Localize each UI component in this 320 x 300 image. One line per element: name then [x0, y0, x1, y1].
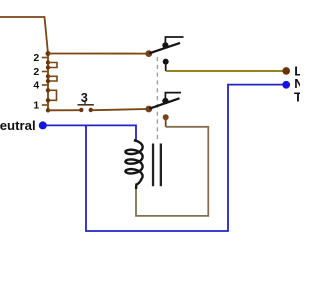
svg-text:2: 2 [33, 66, 39, 78]
pushbutton S3 actuator stem [84, 102, 86, 105]
relay contact S1 lever [149, 43, 180, 53]
wire neutral to coil top [46, 125, 136, 140]
wire to relay contact S1 common [48, 53, 147, 55]
pin 4 terminal tick [42, 84, 47, 86]
relay contact S2 NO contact [163, 114, 169, 120]
relay contact S2 common node [145, 106, 152, 113]
relay coil K1 [125, 140, 142, 189]
relay contact S1 NC contact [162, 42, 168, 48]
svg-text:Neutral: Neutral [0, 118, 36, 133]
relay contact S2 lever [149, 98, 179, 108]
relay contact S2 NC contact [162, 98, 168, 104]
wire to L terminal [166, 70, 283, 72]
node chain dot d [46, 79, 50, 83]
pin 1 terminal tick [42, 104, 47, 106]
svg-text:1: 1 [33, 100, 39, 112]
mechanical link dashed [156, 57, 158, 140]
node chain dot f [46, 98, 50, 102]
wire pin1 to pushbutton [48, 109, 80, 111]
wire S2 NO drop [165, 117, 167, 127]
jumper link 1 [48, 63, 57, 68]
relay contact S1 common node [145, 50, 152, 57]
wire pushbutton to S2 common [93, 109, 147, 110]
svg-text:4: 4 [33, 80, 39, 92]
node chain dot e [46, 88, 50, 92]
wire S1 NC stub [165, 37, 183, 45]
pin 2b terminal tick [42, 71, 47, 73]
wire supply feed top-left [0, 17, 48, 54]
node chain dot b [46, 65, 50, 69]
relay contact S1 NO contact [163, 59, 169, 65]
pushbutton S3 contact left [79, 108, 83, 112]
terminal Neutral node [39, 121, 47, 129]
node chain dot a [46, 60, 50, 64]
svg-text:2: 2 [33, 52, 39, 64]
wire connector body vertical [47, 54, 49, 111]
wire neutral return loop [86, 85, 283, 231]
wire S2 NC stub [165, 93, 181, 101]
node chain dot c [46, 74, 50, 78]
relay core bar 1 [152, 144, 154, 187]
pushbutton S3 actuator bar [78, 104, 94, 106]
pushbutton S3 contact right [89, 108, 93, 112]
jumper link 3 [48, 90, 57, 100]
node junction top [46, 51, 51, 56]
pin 2 terminal tick [42, 57, 47, 59]
terminal N node [282, 81, 290, 89]
terminal L node [282, 67, 290, 75]
svg-text:T: T [294, 89, 300, 104]
wire S1 NO drop [165, 62, 167, 71]
wire relay loop to coil [136, 127, 208, 216]
node chain dot g [46, 108, 50, 112]
jumper link 2 [48, 76, 57, 81]
relay core bar 2 [160, 144, 162, 187]
